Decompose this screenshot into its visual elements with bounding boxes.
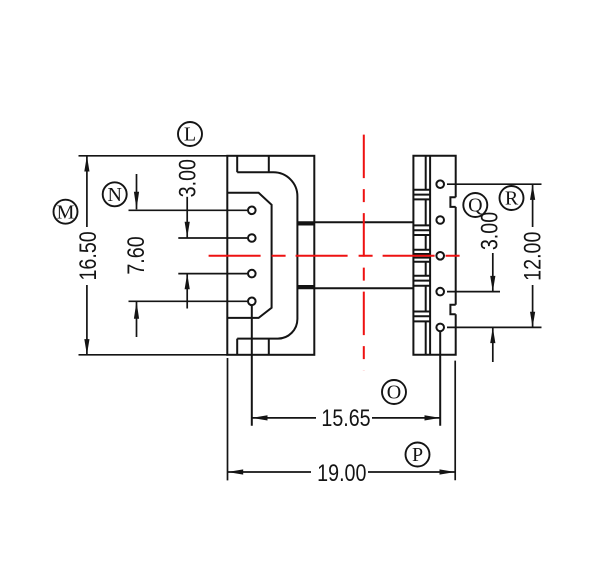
arrowhead 15.65 left bbox=[252, 415, 268, 420]
bottom mounting notch bbox=[237, 339, 269, 355]
label circle O bbox=[382, 380, 406, 404]
winding tube bottom line bbox=[297, 287, 413, 289]
svg-text:M: M bbox=[57, 201, 75, 223]
extension line 19.00 right bbox=[454, 361, 456, 481]
svg-text:3.00: 3.00 bbox=[476, 212, 503, 250]
arrowhead 3.00 left upper bbox=[185, 222, 190, 238]
top mounting notch bbox=[237, 156, 269, 173]
arrowhead 3.00 left lower bbox=[185, 274, 190, 290]
label circle N bbox=[103, 182, 127, 206]
right edge snap notch upper bbox=[450, 197, 455, 207]
pin column lead right view bbox=[439, 332, 441, 426]
right view terminal strip verticals bbox=[425, 156, 427, 355]
bottom slot bar bbox=[297, 285, 314, 288]
left view outer body bbox=[227, 156, 314, 355]
svg-text:7.60: 7.60 bbox=[122, 236, 149, 274]
arrowhead 3.00 right lower bbox=[490, 327, 495, 343]
extension line pin2 bbox=[178, 237, 247, 239]
label circle M bbox=[54, 200, 78, 224]
winding tube top line bbox=[297, 221, 413, 223]
dim 3.00 right upper shaft bbox=[492, 253, 494, 292]
svg-text:P: P bbox=[412, 444, 423, 466]
pin P3 left view bbox=[248, 270, 256, 278]
arrowhead 16.50 bottom bbox=[84, 339, 89, 355]
pin P9 right view bbox=[436, 324, 444, 332]
dimension line 19.00 bbox=[228, 471, 456, 473]
extension line right pin5 bbox=[447, 326, 542, 328]
right edge snap notch lower bbox=[450, 305, 455, 315]
top slot bar bbox=[297, 222, 314, 225]
svg-text:12.00: 12.00 bbox=[519, 232, 546, 281]
dim 7.60 upper arrow shaft bbox=[136, 174, 138, 209]
svg-text:15.65: 15.65 bbox=[321, 404, 370, 431]
arrowhead 3.00 right upper bbox=[490, 276, 495, 292]
pin column lead left view bbox=[251, 306, 253, 426]
extension line pin4 bbox=[129, 300, 248, 302]
pin P2 left view bbox=[248, 234, 256, 242]
svg-text:19.00: 19.00 bbox=[317, 459, 366, 486]
pin panel bbox=[227, 193, 271, 318]
extension line bottom 16.50 bbox=[79, 354, 228, 356]
arrowhead 7.60 upper bbox=[134, 192, 139, 210]
svg-text:3.00: 3.00 bbox=[174, 159, 201, 197]
label circle Q bbox=[463, 193, 487, 217]
svg-text:O: O bbox=[387, 382, 401, 404]
dim 3.00 left upper shaft bbox=[186, 197, 188, 238]
svg-text:R: R bbox=[505, 188, 519, 210]
svg-text:L: L bbox=[184, 124, 196, 146]
right view outer body bbox=[413, 156, 455, 355]
centerline horizontal (red) bbox=[209, 255, 468, 257]
extension line pin1 bbox=[129, 209, 248, 211]
pin P4 left view bbox=[248, 298, 256, 306]
arrowhead 16.50 top bbox=[84, 156, 89, 172]
pin P8 right view bbox=[436, 288, 444, 296]
svg-text:Q: Q bbox=[468, 195, 483, 217]
label circle R bbox=[500, 186, 524, 210]
arrowhead 12.00 top bbox=[530, 184, 535, 200]
extension line right pin4 bbox=[447, 291, 500, 293]
dim 3.00 left lower shaft bbox=[186, 274, 188, 309]
arrowhead 19.00 right bbox=[440, 469, 456, 474]
extension line 19.00 left bbox=[227, 358, 229, 480]
pin P6 right view bbox=[436, 216, 444, 224]
extension line top 16.50 bbox=[79, 155, 228, 157]
dim 3.00 right lower shaft bbox=[492, 327, 494, 362]
right view terminal strip horizontals bbox=[413, 190, 430, 322]
svg-text:16.50: 16.50 bbox=[74, 231, 101, 280]
dim 7.60 lower arrow shaft bbox=[136, 301, 138, 337]
winding channel wall bbox=[237, 172, 297, 338]
extension line right pin1 bbox=[447, 183, 542, 185]
arrowhead 15.65 right bbox=[425, 415, 441, 420]
label circle P bbox=[406, 443, 430, 467]
dimension line 16.50 bbox=[86, 156, 88, 355]
pin P5 right view bbox=[436, 180, 444, 188]
extension line pin3 bbox=[178, 273, 247, 275]
svg-text:N: N bbox=[107, 184, 121, 206]
arrowhead 12.00 bottom bbox=[530, 312, 535, 328]
pin P1 left view bbox=[248, 207, 256, 215]
arrowhead 7.60 lower bbox=[134, 301, 139, 319]
dimension line 12.00 bbox=[532, 184, 534, 327]
label circle L bbox=[178, 122, 202, 146]
arrowhead 19.00 left bbox=[228, 469, 244, 474]
dimension line 15.65 bbox=[252, 417, 440, 419]
right view flange line bbox=[429, 156, 431, 355]
centerline vertical (red) bbox=[363, 135, 365, 371]
pin P7 right view bbox=[436, 252, 444, 260]
